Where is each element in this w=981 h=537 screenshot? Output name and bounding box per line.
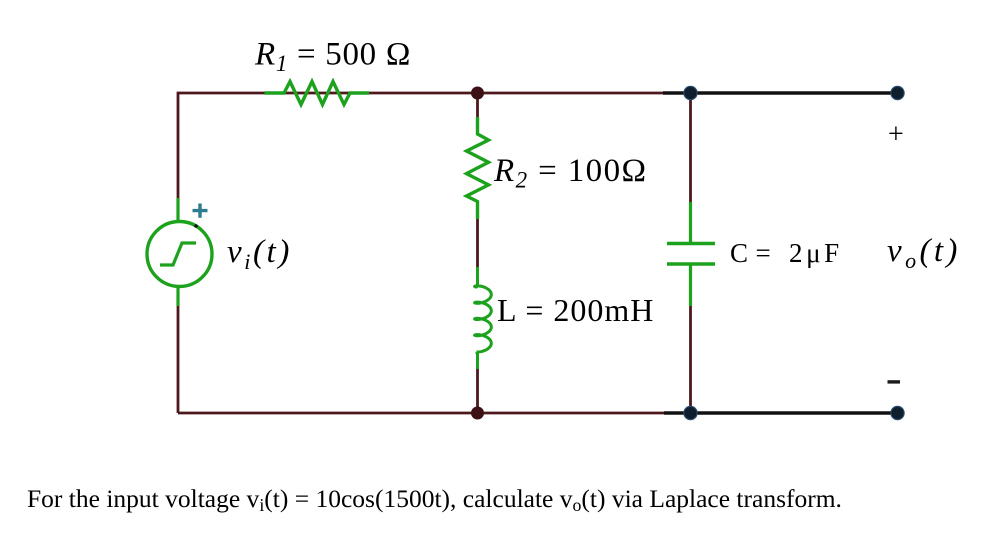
capacitor C bottom plate (667, 262, 715, 265)
capacitor C bottom lead (green) (689, 264, 692, 306)
wire capacitor branch upper (maroon) (689, 93, 692, 204)
wire output top (black) (663, 91, 897, 95)
svg-text:R1 = 500 Ω: R1 = 500 Ω (254, 37, 411, 77)
junction node bottom middle (471, 407, 484, 420)
junction node top middle (471, 87, 484, 100)
node capacitor bottom (684, 406, 697, 419)
svg-text:C=2μF: C=2μF (730, 238, 843, 268)
capacitor C top plate (667, 242, 715, 245)
output minus sign (888, 380, 901, 383)
terminal node top right (891, 86, 904, 99)
source V1 circle (147, 222, 212, 287)
inductor L (475, 267, 492, 369)
wire left lower (maroon) (177, 305, 180, 413)
wire middle branch lower (maroon) (476, 368, 479, 413)
source lead bottom (green) (176, 286, 179, 306)
cursor speck (194, 224, 198, 228)
svg-text:vo(t): vo(t) (887, 233, 961, 273)
wire middle branch upper (maroon) (476, 93, 479, 119)
svg-text:For the input voltage vi(t) =: For the input voltage vi(t) = 10cos(1500… (27, 484, 842, 515)
source polarity plus (teal) (193, 204, 208, 218)
resistor R1 (265, 82, 370, 105)
wire capacitor branch lower (maroon) (689, 304, 692, 413)
svg-text:L = 200mH: L = 200mH (497, 292, 654, 328)
wire top left (maroon) (178, 93, 663, 199)
terminal node bottom right (891, 406, 904, 419)
resistor R2 (467, 117, 489, 219)
wire bottom (maroon) (178, 412, 666, 415)
svg-text:R2 = 100Ω: R2 = 100Ω (493, 153, 647, 193)
source step symbol (160, 243, 196, 265)
capacitor C top lead (green) (689, 202, 692, 243)
wire middle branch mid (maroon) (476, 217, 479, 268)
svg-text:vi(t): vi(t) (227, 234, 292, 274)
node capacitor top (684, 86, 697, 99)
wire output bottom (black) (664, 411, 897, 415)
source lead top (green) (176, 198, 179, 222)
svg-text:+: + (888, 119, 904, 150)
